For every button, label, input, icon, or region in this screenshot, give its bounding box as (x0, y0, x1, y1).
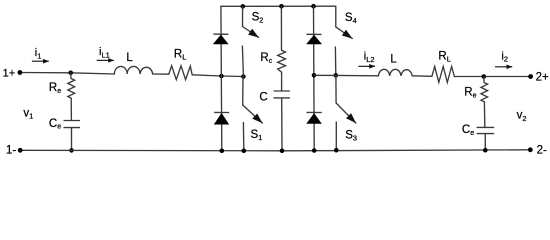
switch S2 (242, 6, 258, 76)
node S1 bottom (242, 149, 247, 154)
node right diode column mid (312, 73, 317, 78)
node Rc top (279, 4, 284, 9)
switch S3 (336, 75, 356, 149)
resistor RL (right) (432, 67, 455, 83)
terminal 1+ (18, 70, 23, 75)
inductor L (left) (114, 66, 152, 74)
wire top bus (221, 5, 336, 7)
diode D lower-left (214, 112, 229, 124)
svg-text:L: L (390, 54, 397, 66)
node Ce right bottom (483, 148, 488, 153)
wire mid right to output (314, 74, 378, 77)
wire right diode column (313, 6, 316, 150)
node junction left shunt top (68, 71, 73, 76)
node S-column mid left (241, 74, 246, 79)
terminal 2- (528, 147, 533, 152)
resistor Re (left) (68, 73, 75, 121)
node right diode column top (311, 4, 316, 9)
current arrow i2 (495, 66, 512, 68)
resistor RL (left) (169, 66, 192, 80)
node diode column mid left (219, 74, 224, 79)
current arrow iL1 (97, 59, 114, 61)
capacitor C (274, 91, 290, 151)
wire RL to bridge (192, 75, 243, 77)
terminal 2+ (528, 74, 533, 79)
capacitor Ce (right) (477, 127, 495, 150)
capacitor Ce (left) (64, 121, 81, 151)
svg-text:2-: 2- (537, 145, 547, 157)
terminal 1- (18, 148, 23, 153)
svg-text:L: L (126, 52, 133, 64)
svg-text:1-: 1- (6, 145, 16, 157)
wire between L and RL (153, 73, 169, 75)
svg-text:1+: 1+ (3, 68, 16, 80)
diode D upper-left (213, 34, 229, 44)
wire between L and RL right (412, 75, 432, 78)
node S2 top (241, 4, 246, 9)
node S4 bottom / mid right (334, 73, 339, 78)
diode D lower-right (306, 112, 322, 123)
node Ce bottom (69, 148, 74, 153)
node left diode column bottom (220, 149, 225, 154)
current arrow iL2 (358, 65, 375, 67)
node C bottom (280, 149, 285, 154)
wire RL to output terminal (454, 76, 530, 78)
wire bottom bus (20, 150, 530, 151)
diode D upper-right (306, 34, 322, 44)
switch S4 (335, 6, 352, 75)
current arrow i1 (32, 60, 49, 62)
inductor L (right) (378, 69, 412, 76)
resistor Rc (278, 6, 286, 91)
node right shunt top (482, 74, 487, 79)
switch S1 (243, 77, 263, 151)
svg-text:C: C (259, 92, 267, 104)
node S3 bottom (334, 148, 339, 153)
resistor Re (right) (481, 77, 488, 128)
node right diode column bottom (312, 148, 317, 153)
wire left diode column (220, 6, 223, 151)
svg-text:2+: 2+ (536, 72, 549, 84)
wire input top left (20, 73, 115, 75)
